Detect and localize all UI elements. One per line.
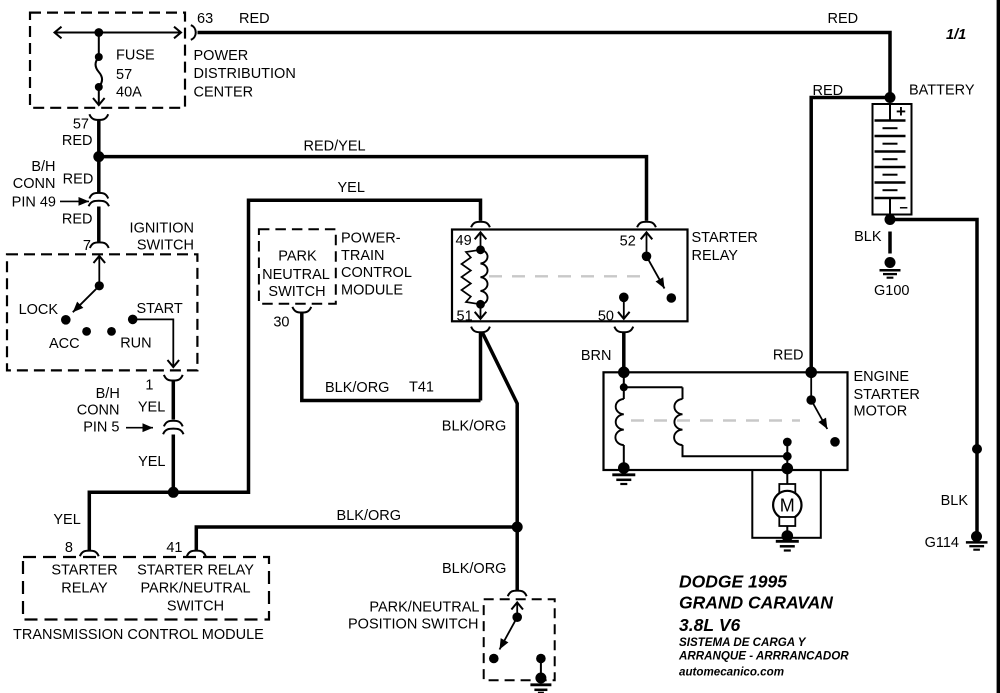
svg-text:B/H: B/H	[31, 159, 55, 175]
ground below motor	[776, 530, 799, 550]
wire BLK/ORG T41 pin 30 to relay pin 51	[302, 313, 481, 401]
label POWER-TRAIN CONTROL MODULE	[341, 230, 412, 298]
label POWER DISTRIBUTION CENTER	[194, 48, 296, 101]
svg-text:CONN: CONN	[13, 176, 56, 192]
svg-text:1: 1	[145, 377, 153, 393]
svg-text:IGNITION: IGNITION	[130, 221, 194, 237]
connector pin 41 of TCM	[187, 551, 206, 557]
svg-text:TRAIN: TRAIN	[341, 248, 385, 264]
transmission control module box	[23, 557, 269, 620]
svg-text:DISTRIBUTION: DISTRIBUTION	[194, 66, 296, 82]
title DODGE 1995	[679, 572, 787, 592]
label BRN	[581, 348, 612, 364]
node on bus bar	[94, 28, 103, 37]
subtitle SISTEMA DE CARGA Y	[679, 636, 807, 649]
svg-text:CENTER: CENTER	[194, 84, 254, 100]
svg-text:automecanico.com: automecanico.com	[679, 666, 784, 679]
label YEL	[53, 512, 80, 528]
svg-text:YEL: YEL	[138, 400, 165, 416]
connector pin 8 of TCM	[80, 551, 99, 557]
svg-text:RELAY: RELAY	[692, 248, 739, 264]
fuse F57 40A	[95, 33, 103, 106]
wire 63 RED from PDC to battery positive	[198, 33, 891, 95]
svg-text:YEL: YEL	[338, 180, 365, 196]
solenoid hold-in winding	[674, 387, 787, 456]
svg-text:RED: RED	[773, 347, 804, 363]
label pin 7	[83, 238, 91, 254]
svg-text:CONTROL: CONTROL	[341, 265, 412, 281]
node RED at box edge	[805, 367, 817, 379]
svg-text:RELAY: RELAY	[61, 580, 108, 596]
subtitle automecanico.com	[679, 666, 784, 679]
wire RED battery to starter motor switch	[811, 98, 890, 371]
connector B/H CONN PIN 49	[89, 193, 109, 206]
label pin 51	[457, 308, 473, 324]
park neutral switch box	[259, 229, 336, 304]
svg-text:30: 30	[273, 314, 289, 330]
battery	[873, 102, 912, 216]
svg-text:3.8L V6: 3.8L V6	[679, 615, 741, 635]
battery negative node	[885, 214, 896, 225]
wire BRN pin 50 to starter motor	[622, 333, 626, 370]
wire YEL pin1 to B/H conn	[172, 381, 176, 420]
connector pin 7 of ignition switch	[90, 242, 109, 248]
label RED top right	[828, 11, 859, 27]
label PARK NEUTRAL SWITCH	[262, 249, 330, 301]
svg-text:NEUTRAL: NEUTRAL	[262, 267, 330, 283]
svg-text:STARTER: STARTER	[692, 230, 758, 246]
wire START to pin 1	[133, 319, 174, 367]
svg-text:49: 49	[456, 233, 472, 249]
svg-text:8: 8	[65, 540, 73, 556]
motor housing box	[752, 470, 821, 538]
svg-text:CONN: CONN	[77, 403, 120, 419]
title 3.8L V6	[679, 615, 741, 635]
svg-text:DODGE 1995: DODGE 1995	[679, 572, 787, 592]
subtitle ARRANQUE - ARRRANCADOR	[678, 650, 849, 663]
svg-text:51: 51	[457, 308, 473, 324]
svg-text:52: 52	[620, 234, 636, 250]
svg-text:M: M	[780, 496, 795, 516]
svg-text:FUSE: FUSE	[116, 48, 155, 64]
ground G114	[966, 531, 988, 550]
power distribution center box	[30, 13, 185, 108]
svg-text:BLK: BLK	[941, 493, 969, 509]
ground inside starter motor	[612, 462, 635, 484]
label pin 41	[166, 540, 182, 556]
svg-text:PIN 49: PIN 49	[12, 194, 56, 210]
svg-text:SWITCH: SWITCH	[268, 284, 325, 300]
node BRN at box edge	[618, 367, 630, 379]
label YEL	[138, 400, 165, 416]
svg-text:BLK/ORG: BLK/ORG	[442, 418, 506, 434]
svg-text:STARTER RELAY: STARTER RELAY	[137, 562, 254, 578]
svg-text:41: 41	[166, 540, 182, 556]
contact RUN	[107, 327, 152, 352]
connector pin 57 of PDC	[89, 114, 108, 120]
wire YEL junction to TCM pin 8	[89, 492, 173, 551]
svg-text:PIN 5: PIN 5	[83, 420, 119, 436]
wire YEL down to junction	[172, 435, 176, 493]
svg-text:MOTOR: MOTOR	[854, 404, 908, 420]
park/neutral position switch box	[484, 599, 555, 680]
label BLK right	[941, 493, 969, 509]
svg-text:50: 50	[598, 309, 614, 325]
svg-text:PARK/NEUTRAL: PARK/NEUTRAL	[369, 600, 479, 616]
svg-text:BLK/ORG: BLK/ORG	[337, 508, 401, 524]
engine starter motor box	[604, 372, 848, 470]
relay switch arm	[642, 251, 665, 288]
position switch arm contact	[489, 654, 499, 664]
connector pin 1 of ignition switch	[164, 375, 183, 381]
svg-text:STARTER: STARTER	[51, 562, 117, 578]
svg-text:BRN: BRN	[581, 348, 612, 364]
motor feed nodes	[782, 438, 794, 475]
label BLK/ORG lower	[442, 561, 506, 577]
label IGNITION SWITCH	[130, 221, 194, 254]
svg-text:40A: 40A	[116, 85, 142, 101]
connector pin 63 of PDC	[191, 25, 196, 40]
connector pin 49 of relay	[471, 222, 490, 228]
junction node BLK/ORG	[512, 522, 523, 533]
svg-text:TRANSMISSION CONTROL MODULE: TRANSMISSION CONTROL MODULE	[13, 627, 264, 643]
solenoid pull-in winding	[615, 399, 623, 467]
svg-text:RED: RED	[239, 11, 270, 27]
label pin 50	[598, 309, 614, 325]
pin 51 arrow	[480, 304, 482, 319]
svg-text:SISTEMA DE CARGA Y: SISTEMA DE CARGA Y	[679, 636, 807, 649]
position switch arm	[500, 612, 523, 649]
label TRANSMISSION CONTROL MODULE	[13, 627, 264, 643]
ignition switch box	[7, 254, 197, 370]
ignition switch rotor arm	[73, 281, 104, 312]
label STARTER RELAY	[692, 230, 758, 264]
label BATTERY	[909, 82, 975, 98]
label B/H CONN PIN 49	[12, 159, 56, 211]
svg-text:PARK: PARK	[278, 249, 317, 265]
wire BLK/ORG TCM pin 41 to junction	[196, 527, 517, 551]
label 1/1	[946, 27, 966, 43]
solenoid feed node	[620, 372, 683, 399]
svg-text:POSITION SWITCH: POSITION SWITCH	[348, 616, 479, 632]
wire YEL junction to relay pin 49	[173, 200, 480, 492]
svg-text:RED: RED	[62, 133, 93, 149]
position switch fixed contact	[536, 654, 546, 676]
wire pin 51 to T41 net	[479, 333, 483, 401]
svg-text:–: –	[900, 199, 908, 216]
label pin 30	[273, 314, 289, 330]
svg-text:STARTER: STARTER	[854, 387, 920, 403]
starter motor linkage dashed	[631, 419, 800, 421]
svg-text:GRAND CARAVAN: GRAND CARAVAN	[679, 593, 833, 613]
svg-text:BLK: BLK	[854, 229, 882, 245]
svg-text:T41: T41	[409, 380, 434, 396]
wire BLK/ORG junction to position switch	[515, 527, 519, 590]
label PARK/NEUTRAL POSITION SWITCH	[348, 600, 480, 633]
label RED lower	[773, 347, 804, 363]
switch end contact	[830, 437, 840, 447]
starter relay box	[452, 230, 688, 322]
svg-text:7: 7	[83, 238, 91, 254]
bus bar arrow inside PDC	[55, 32, 182, 34]
relay pin 50 node	[619, 293, 629, 303]
svg-text:YEL: YEL	[53, 512, 80, 528]
junction node YEL	[168, 487, 179, 498]
svg-text:BATTERY: BATTERY	[909, 82, 975, 98]
starter motor switch arm	[806, 372, 827, 429]
svg-text:57: 57	[73, 117, 89, 133]
svg-text:1/1: 1/1	[946, 27, 966, 43]
wire RED from PDC pin 57	[97, 120, 101, 193]
label T41	[409, 380, 434, 396]
connector below pin 50	[614, 327, 633, 333]
svg-text:LOCK: LOCK	[19, 302, 59, 318]
relay linkage dashed	[489, 275, 643, 277]
title GRAND CARAVAN	[679, 593, 833, 613]
wire BLK/ORG diagonal pin 51 to junction	[483, 333, 518, 527]
svg-text:BLK/ORG: BLK/ORG	[325, 380, 389, 396]
relay contact node	[667, 293, 677, 303]
svg-text:ENGINE: ENGINE	[854, 369, 910, 385]
label BLK/ORG	[325, 380, 389, 396]
motor M1	[773, 470, 801, 533]
svg-text:63: 63	[197, 11, 213, 27]
contact START	[128, 301, 183, 324]
pointer arrow to pin 49 connector	[60, 200, 89, 202]
label RED	[62, 133, 93, 149]
svg-text:RED/YEL: RED/YEL	[304, 138, 366, 154]
svg-text:BLK/ORG: BLK/ORG	[442, 561, 506, 577]
label BLK/ORG diagonal	[442, 418, 506, 434]
connector pin 30	[292, 307, 311, 313]
svg-text:57: 57	[116, 67, 132, 83]
label YEL top	[338, 180, 365, 196]
svg-text:POWER: POWER	[194, 48, 249, 64]
svg-text:RUN: RUN	[120, 336, 151, 352]
wire BLK battery to G114	[890, 220, 977, 532]
wire RED to ignition switch	[97, 207, 101, 242]
label pin 52	[620, 234, 636, 250]
contact LOCK	[19, 302, 71, 325]
svg-text:B/H: B/H	[96, 386, 120, 402]
wire RED/YEL to relay pin 52	[99, 157, 647, 221]
frame right border	[997, 0, 1000, 693]
battery positive node	[885, 92, 896, 103]
svg-text:RED: RED	[828, 11, 859, 27]
svg-text:START: START	[137, 301, 183, 317]
svg-text:MODULE: MODULE	[341, 283, 403, 299]
label pin 63	[197, 11, 213, 27]
svg-text:RED: RED	[63, 171, 94, 187]
connector below pin 51	[471, 327, 490, 333]
label RED mid	[63, 171, 94, 187]
label RED	[62, 211, 93, 227]
svg-text:RED: RED	[62, 211, 93, 227]
relay coil K1	[462, 245, 488, 308]
label pin 49	[456, 233, 472, 249]
junction node RED / RED-YEL	[93, 151, 104, 162]
position switch feed arrow	[516, 603, 518, 618]
svg-text:POWER-: POWER-	[341, 230, 401, 246]
label RED upper	[813, 83, 844, 99]
svg-text:+: +	[896, 102, 906, 121]
svg-text:G100: G100	[874, 283, 909, 299]
label G114	[925, 535, 959, 551]
connector of position switch	[508, 591, 527, 597]
svg-text:PARK/NEUTRAL: PARK/NEUTRAL	[140, 580, 250, 596]
svg-text:ACC: ACC	[49, 336, 80, 352]
ground G100	[880, 257, 901, 278]
pin 50 arrow	[623, 297, 625, 319]
pin 49 arrow	[480, 232, 482, 250]
label RED/YEL	[304, 138, 366, 154]
svg-text:RED: RED	[813, 83, 844, 99]
svg-text:ARRANQUE - ARRRANCADOR: ARRANQUE - ARRRANCADOR	[678, 650, 849, 663]
svg-text:SWITCH: SWITCH	[137, 238, 194, 254]
label BLK/ORG	[337, 508, 401, 524]
contact ACC	[49, 327, 91, 352]
pin 52 arrow	[646, 232, 648, 256]
label pin 57	[73, 117, 89, 133]
label pin 8	[65, 540, 73, 556]
label FUSE 57 40A	[116, 48, 155, 101]
svg-text:SWITCH: SWITCH	[167, 599, 224, 615]
label BLK	[854, 229, 882, 245]
connector B/H CONN PIN 5	[163, 421, 183, 434]
label ENGINE STARTER MOTOR	[854, 369, 920, 420]
ground at position switch	[530, 673, 551, 693]
wire BLK battery to G100	[888, 232, 892, 254]
label pin 1	[145, 377, 153, 393]
connector pin 52 of relay	[637, 222, 656, 228]
label STARTER RELAY PARK/NEUTRAL SWITCH (TCM pin 41)	[137, 562, 254, 614]
splice node on BLK	[972, 444, 982, 454]
label YEL	[138, 454, 165, 470]
label STARTER RELAY (TCM pin 8)	[51, 562, 117, 596]
label RED top left	[239, 11, 270, 27]
label B/H CONN PIN 5	[77, 386, 120, 436]
pointer arrow to pin 5 connector	[126, 427, 153, 429]
ignition feed arrow	[98, 256, 100, 286]
label G100	[874, 283, 909, 299]
svg-text:YEL: YEL	[138, 454, 165, 470]
svg-text:G114: G114	[925, 535, 959, 551]
